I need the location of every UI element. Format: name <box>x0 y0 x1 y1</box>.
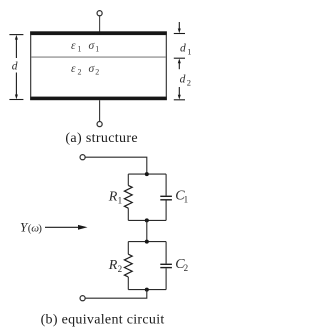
label epsilon1 sigma1 <box>71 40 99 54</box>
wire (top terminal to top plate) <box>99 16 101 32</box>
svg-text:ε: ε <box>71 40 76 52</box>
node (RC2 top junction) <box>145 240 149 244</box>
wire (right side border) <box>165 34 167 98</box>
svg-text:d: d <box>12 61 18 73</box>
svg-text:(a) structure: (a) structure <box>65 131 138 146</box>
wire (RC2 left drop) <box>127 242 129 255</box>
dimension d1/d2 (right): tick at interface <box>174 57 185 59</box>
svg-text:2: 2 <box>184 263 189 273</box>
svg-text:2: 2 <box>95 68 99 77</box>
wire (RC2 top rail) <box>128 241 166 243</box>
svg-text:2: 2 <box>78 68 82 77</box>
wire (series link) <box>146 220 148 241</box>
dimension d1 (right): tick at plate <box>174 33 185 35</box>
dimension d (left): bottom tick <box>9 99 23 101</box>
terminal (bottom, circuit) <box>80 296 85 301</box>
resistor R2 <box>124 254 132 277</box>
svg-text:1: 1 <box>95 44 99 53</box>
wire (left side border) <box>30 34 32 98</box>
wire (RC1 bottom rail) <box>128 219 166 221</box>
wire (RC1 right top) <box>165 174 167 196</box>
svg-text:2: 2 <box>187 77 191 87</box>
svg-text:(b) equivalent circuit: (b) equivalent circuit <box>41 313 165 328</box>
layer interface line <box>31 56 166 58</box>
wire (top terminal to node) <box>85 157 147 174</box>
capacitor C1 <box>160 195 172 197</box>
electrode plate (top) <box>30 31 167 35</box>
node (RC1 bottom junction) <box>145 218 149 222</box>
dimension (right): up arrow to interface <box>178 59 181 64</box>
wire (RC2 right bottom) <box>165 268 167 289</box>
electrode plate (bottom) <box>30 97 167 101</box>
terminal (top, structure) <box>97 11 102 16</box>
svg-text:1: 1 <box>184 195 189 205</box>
svg-text:R: R <box>108 258 118 273</box>
svg-text:1: 1 <box>118 195 123 205</box>
terminal (bottom, structure) <box>97 122 102 127</box>
svg-text:d: d <box>180 73 186 85</box>
svg-text:2: 2 <box>118 264 123 274</box>
svg-text:1: 1 <box>187 47 191 57</box>
svg-text:1: 1 <box>78 44 82 53</box>
node (RC2 bottom junction) <box>145 288 149 292</box>
wire (RC2 left bottom) <box>127 277 129 290</box>
dimension d (left): down arrow <box>15 73 17 96</box>
label epsilon2 sigma2 <box>71 63 99 77</box>
svg-text:d: d <box>180 43 186 55</box>
dimension d (left): up arrow <box>15 35 18 40</box>
dimension d (left): top tick <box>9 34 23 36</box>
arrow (admittance direction) <box>45 226 80 228</box>
resistor R1 <box>124 185 132 208</box>
wire (node to bottom terminal) <box>85 290 147 299</box>
capacitor C2 <box>160 263 172 265</box>
wire (bottom plate to bottom terminal) <box>99 100 101 121</box>
svg-text:): ) <box>38 222 42 234</box>
terminal (top, circuit) <box>80 155 85 160</box>
dimension d1 (right): down arrow to top plate <box>178 22 180 30</box>
node (RC1 top junction) <box>145 172 149 176</box>
svg-text:R: R <box>108 189 118 204</box>
wire (RC1 top rail) <box>128 173 166 175</box>
wire (RC1 left drop) <box>127 174 129 185</box>
wire (RC2 bottom rail) <box>128 289 166 291</box>
dimension d2 (right): bottom tick <box>174 99 185 101</box>
wire (RC2 right top) <box>165 242 167 264</box>
dimension d2 (right): down arrow to bottom plate <box>178 87 180 96</box>
wire (RC1 right bottom) <box>165 201 167 221</box>
wire (RC1 left bottom) <box>127 208 129 220</box>
svg-text:ε: ε <box>71 63 76 75</box>
